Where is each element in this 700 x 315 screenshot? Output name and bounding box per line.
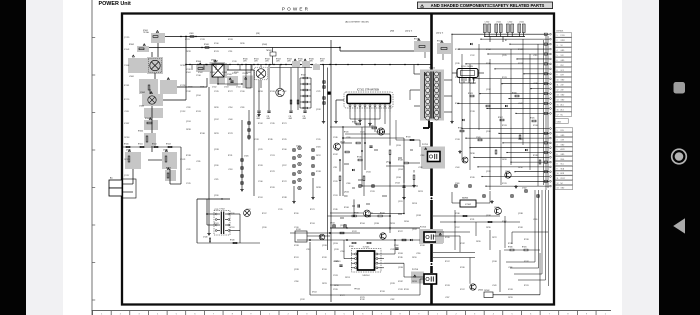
svg-text:D7181: D7181	[322, 257, 327, 259]
svg-text:Q7183: Q7183	[416, 215, 421, 217]
svg-text:R7404: R7404	[138, 131, 143, 133]
svg-text:L7115: L7115	[533, 55, 537, 57]
svg-text:C7125: C7125	[186, 183, 191, 185]
svg-text:C7154: C7154	[395, 182, 400, 184]
svg-text:Q7126: Q7126	[334, 249, 339, 251]
svg-text:L7159: L7159	[416, 253, 421, 255]
svg-text:R7423: R7423	[276, 59, 281, 61]
svg-text:C7176: C7176	[370, 191, 375, 193]
svg-text:Q7602: Q7602	[505, 171, 510, 173]
svg-text:C7412: C7412	[212, 87, 217, 89]
svg-text:R7631: R7631	[522, 247, 527, 249]
svg-text:R7411: R7411	[138, 144, 143, 146]
svg-text:L7135: L7135	[196, 161, 200, 163]
svg-text:AC1: AC1	[561, 103, 564, 106]
svg-text:D7126: D7126	[270, 187, 275, 189]
svg-text:C7191: C7191	[333, 195, 338, 197]
svg-text:D7187: D7187	[398, 281, 403, 283]
svg-text:4: 4	[557, 50, 558, 52]
svg-text:ZD7189: ZD7189	[124, 159, 130, 161]
svg-text:L7154: L7154	[228, 107, 232, 109]
svg-text:C7410: C7410	[188, 87, 193, 89]
svg-text:11: 11	[557, 178, 559, 180]
svg-text:Q7138: Q7138	[322, 245, 327, 247]
svg-text:Q7150: Q7150	[262, 227, 267, 229]
svg-text:L7190: L7190	[533, 219, 537, 221]
svg-text:R7620: R7620	[512, 93, 517, 95]
svg-text:SCL: SCL	[561, 164, 564, 166]
svg-text:D7193: D7193	[232, 73, 237, 75]
svg-text:L7174: L7174	[230, 227, 234, 229]
svg-text:D7190: D7190	[460, 267, 465, 269]
svg-text:C7160: C7160	[394, 245, 399, 247]
svg-text:ZD750: ZD750	[334, 285, 339, 287]
svg-text:17: 17	[557, 114, 559, 116]
svg-text:D7138: D7138	[316, 171, 321, 173]
svg-text:10: 10	[557, 80, 559, 82]
svg-text:400V: 400V	[289, 118, 293, 120]
svg-text:Q7148: Q7148	[492, 261, 497, 263]
svg-text:Q7160: Q7160	[396, 177, 401, 179]
svg-text:L7126: L7126	[346, 137, 351, 139]
svg-text:Q7191: Q7191	[486, 171, 491, 173]
svg-text:Q7154: Q7154	[186, 121, 191, 123]
svg-text:ZD7958: ZD7958	[124, 137, 130, 139]
svg-text:R7410: R7410	[124, 144, 129, 146]
svg-text:C7150: C7150	[294, 227, 299, 229]
svg-text:3: 3	[557, 45, 558, 47]
svg-text:R7189: R7189	[533, 155, 538, 157]
svg-text:7: 7	[557, 159, 558, 161]
svg-text:D7107: D7107	[376, 131, 381, 133]
svg-text:Q7144: Q7144	[196, 95, 201, 97]
svg-text:Q7116: Q7116	[214, 195, 219, 197]
svg-text:R7403: R7403	[145, 118, 150, 120]
svg-text:D7196: D7196	[445, 237, 450, 239]
svg-text:Q71157: Q71157	[124, 175, 129, 177]
svg-text:D7140: D7140	[214, 43, 219, 45]
svg-text:15: 15	[557, 104, 559, 106]
svg-text:D7179: D7179	[360, 297, 365, 299]
svg-text:2: 2	[557, 40, 558, 42]
svg-text:8: 8	[557, 164, 558, 166]
svg-text:D7174: D7174	[185, 39, 190, 41]
svg-text:R7177: R7177	[228, 91, 233, 93]
svg-text:Q7198: Q7198	[294, 269, 299, 271]
svg-text:R7412: R7412	[152, 144, 157, 146]
svg-text:D7133: D7133	[228, 39, 233, 41]
svg-text:Q7147: Q7147	[214, 119, 219, 121]
svg-text:ZD718: ZD718	[412, 203, 417, 205]
svg-text:R7185: R7185	[398, 257, 403, 259]
svg-text:L7158: L7158	[294, 281, 298, 283]
svg-text:R71381: R71381	[124, 85, 129, 87]
svg-text:4: 4	[557, 144, 558, 146]
svg-text:D7110: D7110	[470, 83, 475, 85]
svg-text:Q7128: Q7128	[390, 283, 395, 285]
svg-text:Q7137: Q7137	[412, 229, 417, 231]
svg-text:D7163: D7163	[398, 253, 403, 255]
svg-text:C7153: C7153	[333, 275, 338, 277]
svg-text:CN7602: CN7602	[484, 290, 490, 292]
svg-text:R7185: R7185	[508, 243, 513, 245]
svg-text:R7193: R7193	[404, 289, 409, 291]
svg-text:L7402: L7402	[485, 21, 490, 23]
svg-text:Q7103: Q7103	[340, 142, 345, 144]
svg-text:R7120: R7120	[344, 131, 349, 133]
svg-text:DET: DET	[561, 75, 564, 77]
svg-text:R7171: R7171	[310, 209, 315, 211]
svg-text:C7430: C7430	[296, 145, 301, 147]
svg-text:ZD790: ZD790	[486, 227, 491, 229]
svg-text:R7144: R7144	[360, 223, 365, 225]
svg-text:D7401: D7401	[186, 72, 191, 74]
svg-text:D7122: D7122	[352, 231, 357, 233]
svg-text:R7240: R7240	[230, 240, 235, 242]
svg-text:C71478: C71478	[180, 159, 185, 161]
svg-text:NJM2904: NJM2904	[362, 275, 369, 277]
svg-text:C7413: C7413	[224, 87, 229, 89]
svg-text:D7125: D7125	[334, 261, 339, 263]
svg-text:L7162: L7162	[282, 91, 286, 93]
svg-text:D7139: D7139	[254, 139, 259, 141]
svg-text:2: 2	[557, 135, 558, 137]
svg-text:Q7183: Q7183	[214, 149, 219, 151]
svg-text:C7158: C7158	[455, 139, 460, 141]
svg-text:C7174: C7174	[270, 155, 275, 157]
svg-text:L7125: L7125	[214, 179, 218, 181]
svg-text:C7125: C7125	[214, 91, 219, 93]
svg-text:R7196: R7196	[524, 239, 529, 241]
svg-text:C7152: C7152	[330, 222, 335, 224]
svg-text:R7162: R7162	[455, 49, 460, 51]
svg-text:PROT: PROT	[561, 178, 566, 180]
svg-text:R7162: R7162	[258, 123, 263, 125]
svg-text:ZD764: ZD764	[404, 221, 409, 223]
svg-text:L7197: L7197	[445, 297, 449, 299]
svg-text:R7427: R7427	[320, 59, 325, 61]
svg-text:L7402: L7402	[519, 21, 524, 23]
svg-text:C74: C74	[303, 116, 306, 118]
svg-text:D7601 D4SBS: D7601 D4SBS	[461, 66, 473, 68]
svg-text:L7401: L7401	[129, 76, 134, 78]
svg-text:L7144: L7144	[228, 119, 232, 121]
svg-text:D7187: D7187	[333, 154, 338, 156]
svg-text:D7153: D7153	[196, 111, 201, 113]
svg-text:D7402: D7402	[163, 149, 168, 151]
svg-text:1/2W: 1/2W	[254, 61, 258, 63]
svg-text:L7143: L7143	[492, 285, 496, 287]
svg-text:R7160: R7160	[349, 246, 354, 248]
svg-text:R7425: R7425	[298, 59, 303, 61]
svg-text:D71798: D71798	[180, 85, 185, 87]
svg-text:9: 9	[557, 75, 558, 77]
svg-text:Q7181: Q7181	[316, 109, 321, 111]
svg-text:R7427: R7427	[301, 74, 306, 76]
svg-text:Q7185: Q7185	[455, 63, 460, 65]
svg-text:(22 Ω *): (22 Ω *)	[405, 31, 413, 33]
svg-text:R7110: R7110	[437, 40, 442, 42]
svg-text:T7101: T7101	[429, 67, 436, 69]
svg-text:D7187: D7187	[460, 243, 465, 245]
svg-text:R7113: R7113	[406, 137, 410, 139]
svg-text:D7179: D7179	[228, 133, 233, 135]
svg-text:10: 10	[557, 173, 559, 175]
svg-text:D7112: D7112	[502, 221, 507, 223]
svg-text:D7140: D7140	[282, 149, 287, 151]
svg-text:C7199: C7199	[333, 289, 338, 291]
svg-text:1/2W: 1/2W	[320, 61, 324, 63]
svg-text:C7425: C7425	[244, 155, 249, 157]
svg-text:R7113: R7113	[524, 285, 529, 287]
svg-text:R7406: R7406	[196, 61, 201, 63]
svg-text:Q7117: Q7117	[282, 165, 287, 167]
svg-text:C7402: C7402	[140, 92, 145, 94]
svg-text:D7158: D7158	[508, 289, 513, 291]
svg-text:D7132: D7132	[524, 261, 529, 263]
svg-text:ZD710: ZD710	[412, 257, 417, 259]
svg-text:R7182: R7182	[360, 299, 365, 301]
svg-text:ZD765: ZD765	[240, 43, 245, 45]
svg-text:C7140: C7140	[258, 181, 263, 183]
svg-text:L7403: L7403	[189, 33, 194, 35]
svg-text:L71315: L71315	[124, 111, 129, 113]
svg-text:ZD776: ZD776	[214, 133, 219, 135]
svg-text:16: 16	[557, 109, 559, 111]
svg-text:D7133: D7133	[445, 285, 450, 287]
svg-text:D7179: D7179	[270, 171, 275, 173]
svg-text:Q71812: Q71812	[180, 111, 186, 113]
svg-text:POWER: POWER	[282, 6, 310, 11]
svg-text:L7180: L7180	[346, 183, 351, 185]
svg-text:C7141: C7141	[366, 172, 371, 174]
svg-text:D7196: D7196	[186, 69, 191, 71]
svg-text:L7124: L7124	[228, 169, 232, 171]
svg-text:14: 14	[557, 99, 559, 101]
svg-text:6: 6	[557, 60, 558, 62]
svg-text:R7402: R7402	[129, 44, 134, 46]
svg-text:L7143: L7143	[518, 103, 522, 105]
svg-text:R7615: R7615	[458, 128, 463, 130]
svg-text:R7123: R7123	[214, 51, 219, 53]
svg-text:ZD7899: ZD7899	[180, 65, 186, 67]
svg-text:1/2W: 1/2W	[243, 61, 247, 63]
svg-text:12: 12	[557, 90, 559, 92]
svg-text:R7148: R7148	[344, 207, 349, 209]
svg-text:POWER Unit: POWER Unit	[99, 1, 132, 7]
svg-text:Q7105: Q7105	[344, 192, 349, 194]
svg-text:C7159: C7159	[398, 289, 403, 291]
svg-text:C74: C74	[267, 116, 270, 118]
svg-text:R7625: R7625	[530, 118, 535, 120]
svg-text:D7111: D7111	[470, 219, 474, 221]
svg-text:C7620: C7620	[455, 183, 460, 185]
svg-text:C7414: C7414	[236, 87, 241, 89]
svg-text:R7115: R7115	[352, 121, 357, 123]
svg-text:C7166: C7166	[196, 75, 201, 77]
svg-text:C7193: C7193	[200, 39, 205, 41]
svg-text:R7152: R7152	[380, 212, 385, 214]
svg-text:L7139: L7139	[418, 167, 423, 169]
svg-text:RY7401: RY7401	[243, 73, 249, 75]
svg-text:D7189: D7189	[282, 197, 287, 199]
svg-text:Q7151: Q7151	[246, 209, 251, 211]
svg-text:8: 8	[557, 70, 558, 72]
svg-text:1: 1	[557, 130, 558, 132]
svg-text:R7408: R7408	[204, 44, 209, 46]
svg-text:Q71785: Q71785	[124, 37, 130, 39]
svg-text:L7133: L7133	[186, 107, 190, 109]
svg-text:ZD799: ZD799	[186, 51, 191, 53]
svg-text:L7159: L7159	[518, 139, 522, 141]
svg-text:1/2W: 1/2W	[265, 61, 269, 63]
svg-text:D7156: D7156	[533, 125, 538, 127]
svg-text:6: 6	[557, 154, 558, 156]
svg-text:D7176: D7176	[502, 183, 507, 185]
svg-text:D7165: D7165	[470, 177, 475, 179]
svg-text:R7127: R7127	[398, 231, 403, 233]
svg-text:L7126: L7126	[240, 107, 244, 109]
svg-text:R7420: R7420	[243, 59, 248, 61]
svg-text:R7150: R7150	[354, 212, 359, 214]
svg-text:Q7190: Q7190	[333, 243, 338, 245]
svg-text:L7178: L7178	[390, 249, 394, 251]
svg-text:D71887: D71887	[124, 123, 129, 125]
svg-text:400V: 400V	[267, 118, 271, 120]
svg-text:R7422: R7422	[265, 59, 270, 61]
svg-text:Q7186: Q7186	[374, 223, 379, 225]
svg-text:13: 13	[557, 95, 559, 97]
svg-text:D7164: D7164	[486, 49, 491, 51]
svg-text:D7196: D7196	[420, 245, 425, 247]
svg-text:ZD759: ZD759	[390, 223, 395, 225]
svg-text:(2W): (2W)	[390, 31, 394, 33]
svg-text:Q7127: Q7127	[340, 225, 345, 227]
svg-text:C7403: C7403	[139, 106, 144, 108]
svg-text:400V: 400V	[257, 118, 261, 120]
svg-text:L7176: L7176	[214, 209, 218, 211]
svg-text:R7153: R7153	[502, 125, 507, 127]
svg-text:R7413: R7413	[166, 144, 171, 146]
svg-text:B1: B1	[505, 40, 507, 42]
svg-text:ZD783: ZD783	[316, 187, 321, 189]
svg-text:C7170: C7170	[333, 181, 338, 183]
svg-text:Q7606: Q7606	[478, 290, 483, 292]
svg-text:R7117: R7117	[262, 213, 267, 215]
svg-text:1/2W: 1/2W	[276, 61, 280, 63]
svg-text:D7180: D7180	[486, 63, 491, 65]
svg-text:IC7105: IC7105	[363, 247, 370, 249]
svg-text:C7411: C7411	[200, 87, 204, 89]
svg-text:ZD723: ZD723	[322, 283, 327, 285]
svg-text:Q7603: Q7603	[494, 207, 499, 209]
svg-text:C7622: C7622	[522, 188, 527, 190]
svg-text:ZD713: ZD713	[345, 277, 350, 279]
svg-text:R7148: R7148	[398, 159, 403, 161]
svg-text:C7182: C7182	[186, 91, 191, 93]
svg-text:11: 11	[557, 85, 559, 87]
svg-text:R7140: R7140	[357, 157, 362, 159]
svg-text:CN7601: CN7601	[556, 30, 564, 32]
svg-text:D7126: D7126	[258, 165, 263, 167]
svg-text:R7177: R7177	[340, 295, 345, 297]
svg-text:D7169: D7169	[518, 227, 523, 229]
svg-text:R7617: R7617	[498, 117, 503, 119]
svg-text:12: 12	[557, 183, 559, 185]
svg-text:5: 5	[557, 149, 558, 151]
svg-text:1/2W: 1/2W	[287, 61, 291, 63]
svg-text:R7151: R7151	[368, 212, 373, 214]
svg-text:C7150: C7150	[240, 91, 245, 93]
svg-text:ZD726: ZD726	[508, 297, 513, 299]
svg-text:L7402: L7402	[508, 21, 513, 23]
svg-text:C7431: C7431	[316, 146, 321, 148]
svg-text:IC7101 STR-W6765N: IC7101 STR-W6765N	[357, 90, 380, 92]
svg-text:(ADJUSTMENT VALUE): (ADJUSTMENT VALUE)	[345, 21, 369, 24]
svg-text:PC7102: PC7102	[420, 227, 426, 229]
svg-text:C7185: C7185	[333, 137, 338, 139]
svg-text:Q7116: Q7116	[230, 213, 235, 215]
svg-text:R7198: R7198	[186, 155, 191, 157]
svg-text:D7403: D7403	[213, 60, 218, 62]
svg-text:Q7168: Q7168	[486, 131, 491, 133]
svg-text:IC7602: IC7602	[465, 204, 471, 206]
svg-text:R7154: R7154	[310, 223, 315, 225]
svg-text:C7240: C7240	[203, 237, 208, 239]
svg-text:Q7111: Q7111	[398, 201, 403, 203]
svg-text:R7613: R7613	[468, 93, 473, 95]
svg-text:R71720: R71720	[124, 99, 129, 101]
svg-text:D7163: D7163	[270, 91, 275, 93]
svg-text:R7111: R7111	[228, 155, 232, 157]
svg-text:R7151: R7151	[294, 257, 299, 259]
svg-text:(22 Ω *): (22 Ω *)	[436, 33, 444, 35]
svg-text:D7180: D7180	[455, 213, 460, 215]
svg-text:CN02: CN02	[557, 121, 562, 123]
svg-text:D7402: D7402	[198, 72, 203, 74]
svg-text:ZD720: ZD720	[214, 107, 219, 109]
svg-text:R7172: R7172	[282, 181, 287, 183]
svg-text:L7118: L7118	[420, 155, 424, 157]
svg-text:R7185: R7185	[268, 139, 273, 141]
svg-text:TH7401: TH7401	[266, 50, 272, 52]
svg-text:D7174: D7174	[518, 63, 523, 65]
svg-text:L7178: L7178	[533, 83, 537, 85]
svg-text:ZD712: ZD712	[316, 155, 321, 157]
svg-text:ZD786: ZD786	[470, 153, 475, 155]
svg-text:13: 13	[557, 188, 559, 190]
svg-text:5: 5	[557, 55, 558, 57]
svg-text:D7404: D7404	[222, 72, 227, 74]
svg-text:R7421: R7421	[254, 59, 259, 61]
svg-text:TP7105: TP7105	[354, 289, 360, 291]
svg-text:PC7103: PC7103	[412, 269, 418, 271]
svg-text:(250V): (250V)	[262, 44, 268, 46]
svg-text:R7116: R7116	[294, 213, 299, 215]
svg-text:L7182: L7182	[390, 299, 395, 301]
svg-text:Q7116: Q7116	[214, 165, 219, 167]
svg-text:R7424: R7424	[287, 59, 292, 61]
svg-text:C7112: C7112	[470, 55, 475, 57]
svg-text:PC7101: PC7101	[422, 144, 428, 146]
svg-text:R7187: R7187	[518, 49, 523, 51]
svg-text:AND SHADED COMPONENTS=SAFETY R: AND SHADED COMPONENTS=SAFETY RELATED PAR…	[431, 3, 545, 8]
svg-text:ZD738: ZD738	[186, 129, 191, 131]
svg-text:Q7125: Q7125	[502, 55, 507, 57]
svg-text:R7123: R7123	[502, 77, 507, 79]
svg-text:ZD772: ZD772	[492, 237, 497, 239]
svg-text:R7109: R7109	[414, 38, 419, 40]
